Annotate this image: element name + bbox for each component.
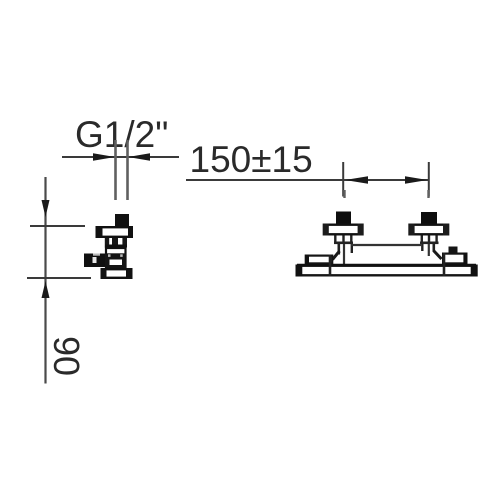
left valve body white flecks (108, 254, 111, 257)
mixer flange 2 right cap (443, 224, 449, 236)
dimension line 150 (186, 179, 429, 181)
mixer nut 2 (421, 212, 437, 224)
arrow points right at tick (405, 176, 428, 183)
neck 2 lines (421, 236, 423, 244)
left valve bottom flange (102, 269, 132, 278)
arrow up (42, 281, 50, 298)
right step cap (463, 253, 467, 265)
left valve neck bars (105, 238, 109, 245)
arrow points left at tick (345, 176, 368, 183)
neck 2 ring (420, 242, 439, 245)
arrow left (points right) (93, 153, 115, 160)
bar divider left (329, 255, 332, 277)
bar divider right (443, 253, 446, 277)
right tick centerline 2 (427, 190, 429, 198)
extension line top (30, 225, 85, 227)
mixer flange 2 (410, 225, 448, 235)
left valve flange left cap (96, 226, 103, 238)
right tick centerline 1 (343, 190, 345, 198)
neck 1 ring (334, 242, 353, 245)
main bar left cap (296, 265, 303, 277)
svg-text:90: 90 (46, 336, 87, 376)
pipe 1 middle line (343, 244, 345, 264)
left valve body white slot (110, 260, 123, 266)
svg-text:G1/2": G1/2" (75, 114, 168, 155)
left valve bottom flange left cap (101, 268, 107, 279)
svg-text:150±15: 150±15 (190, 139, 313, 180)
mixer flange 2 left cap (408, 224, 414, 236)
pipe 2 elbow diagonal (434, 251, 442, 260)
pipe 2 middle line (428, 244, 430, 256)
mixer flange 1 (324, 225, 362, 235)
left valve flange (97, 227, 132, 237)
left valve flange right cap (128, 226, 133, 238)
mixer flange 1 right cap (358, 224, 364, 236)
left valve nut (115, 214, 129, 226)
body top line (351, 244, 421, 246)
arrow right (points left) (128, 153, 150, 160)
tick left (342, 162, 344, 197)
dimension line G1/2 (62, 156, 179, 158)
tick right (428, 162, 430, 197)
extension line bottom (27, 277, 91, 279)
left step (306, 256, 332, 264)
left valve bottom flange right cap (126, 268, 133, 279)
pipe 1 left line (337, 244, 340, 255)
main bar right cap (471, 265, 478, 277)
vertical dimension line 90 (44, 177, 46, 384)
mixer flange 1 left cap (323, 224, 329, 236)
main bar (297, 266, 477, 276)
pipe line right (126, 140, 129, 200)
arrow down (42, 200, 50, 217)
pipe 1 elbow diagonal (333, 251, 340, 260)
neck 1 lines (334, 236, 336, 244)
left step cap (305, 255, 309, 265)
left valve outlet top notch (93, 254, 100, 256)
left valve outlet (84, 254, 105, 268)
left valve outlet highlight (93, 257, 97, 263)
left valve neck ring (105, 245, 127, 248)
pipe 1 right stub (351, 244, 353, 253)
mixer nut 1 (336, 212, 351, 224)
right step (443, 254, 466, 264)
pipe 2 right line (432, 244, 435, 252)
left valve body dark band (105, 253, 127, 268)
bar top edge line (297, 264, 476, 267)
right step square (449, 247, 458, 254)
pipe 2 left stub (421, 244, 423, 251)
pipe line left (114, 140, 117, 200)
left valve body (106, 248, 126, 267)
